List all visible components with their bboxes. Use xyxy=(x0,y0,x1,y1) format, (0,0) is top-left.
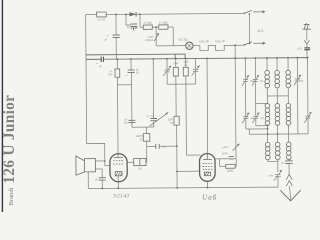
svg-text:U21,48: U21,48 xyxy=(215,39,225,43)
svg-text:4µ: 4µ xyxy=(126,25,130,29)
svg-text:µ 5: µ 5 xyxy=(163,145,167,149)
svg-text:+: + xyxy=(107,34,109,38)
svg-text:0Ω: 0Ω xyxy=(124,121,127,125)
svg-text:17 62V: 17 62V xyxy=(143,21,152,25)
svg-text:(Ω: (Ω xyxy=(185,63,188,67)
svg-text:17 660: 17 660 xyxy=(159,21,168,25)
svg-text:41,5: 41,5 xyxy=(257,29,263,33)
svg-text:Brandt: Brandt xyxy=(8,187,15,205)
svg-text:µF00: µF00 xyxy=(222,146,228,149)
svg-text:µPa: µPa xyxy=(268,173,273,177)
svg-text:11W: 11W xyxy=(173,61,179,65)
svg-text:V12 5Ω: V12 5Ω xyxy=(178,37,189,41)
svg-text:+: + xyxy=(96,61,98,65)
svg-text:µF06: µF06 xyxy=(222,152,228,155)
svg-text:U21,48: U21,48 xyxy=(199,39,209,43)
svg-text:Uaß: Uaß xyxy=(202,192,217,201)
svg-text:+: + xyxy=(126,74,128,78)
svg-text:µF: µF xyxy=(99,64,103,68)
svg-text:0,4 W: 0,4 W xyxy=(98,18,106,22)
svg-text:µ/3: µ/3 xyxy=(297,47,301,51)
svg-text:µF: µF xyxy=(95,177,99,181)
svg-text:(Ω: (Ω xyxy=(140,137,143,141)
svg-text:ΩWΩ: ΩWΩ xyxy=(227,169,233,173)
svg-text:(Ω: (Ω xyxy=(170,121,173,125)
svg-text:17 PH: 17 PH xyxy=(146,114,153,118)
svg-text:5/21.43: 5/21.43 xyxy=(113,192,129,199)
svg-text:100: 100 xyxy=(108,72,113,76)
svg-text:126 U Junior: 126 U Junior xyxy=(1,95,18,184)
svg-text:Ü4: Ü4 xyxy=(138,167,142,171)
svg-text:100mA: 100mA xyxy=(145,38,154,42)
svg-text:µF: µF xyxy=(104,37,108,41)
